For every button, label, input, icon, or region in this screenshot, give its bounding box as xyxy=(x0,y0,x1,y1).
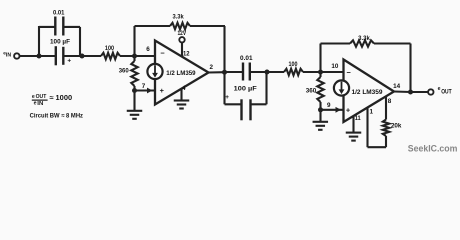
resistor R4 100 second stage input xyxy=(284,69,303,75)
wire: node I down to ground xyxy=(319,110,321,122)
resistor R7 20k xyxy=(383,120,389,137)
resistor R3 360 first stage shunt xyxy=(133,56,135,61)
resistor R2 3.3k first stage feedback xyxy=(170,23,190,29)
wire: node H to eOUT terminal xyxy=(411,91,429,93)
wire: node A up to 0.01 branch xyxy=(38,26,40,56)
wire: feedback 2 down to node H xyxy=(409,44,411,93)
svg-text:7: 7 xyxy=(142,83,146,90)
svg-text:20k: 20k xyxy=(391,122,402,129)
wire: feedback rail 2 right segment xyxy=(374,42,411,44)
resistor R1 100 xyxy=(101,53,120,59)
wire: node I to pin 9 of U2 (arrow) xyxy=(321,109,344,111)
wire: pin 12 stub supply to U1 xyxy=(181,42,183,57)
node E: + input node of U1 xyxy=(132,88,137,93)
svg-text:12: 12 xyxy=(183,50,190,57)
supply terminal 12V open circle xyxy=(179,37,184,42)
wire: U2 output to node H xyxy=(394,90,411,93)
wire: node E to pin 7 of U1 (arrow) xyxy=(135,89,156,91)
svg-text:−: − xyxy=(347,68,352,77)
wire: node C up to feedback rail xyxy=(133,26,135,56)
svg-text:360: 360 xyxy=(306,88,317,95)
svg-text:+: + xyxy=(346,105,351,114)
node A: input coupling left junction xyxy=(37,54,42,59)
node H: U2 output junction xyxy=(408,90,413,95)
resistor R6 360 second stage shunt xyxy=(319,72,321,77)
svg-text:14: 14 xyxy=(393,83,400,90)
wire: pin 8 stub from U2 to R7 xyxy=(385,96,387,119)
node G: second stage input junction xyxy=(318,70,323,75)
wire: node G up to feedback rail 2 xyxy=(319,44,321,73)
svg-text:100 µF: 100 µF xyxy=(50,39,70,46)
svg-text:IN: IN xyxy=(37,101,43,107)
capacitor C4 100uF electrolytic, lower branch xyxy=(240,99,242,120)
svg-text:6: 6 xyxy=(146,46,150,53)
svg-text:1: 1 xyxy=(369,109,373,116)
node D: U1 output junction xyxy=(222,70,227,75)
wire: lower branch right segment xyxy=(251,103,267,105)
wire: R3 to node E xyxy=(133,86,135,91)
wire: feedback rail left segment xyxy=(135,25,171,27)
wire: node F to R4 xyxy=(267,71,284,73)
wire: main line node A to C2 xyxy=(39,55,56,57)
svg-text:+: + xyxy=(160,86,165,95)
svg-text:12V: 12V xyxy=(178,30,187,37)
ground: first stage 360 return xyxy=(127,110,143,112)
svg-text:1/2 LM359: 1/2 LM359 xyxy=(166,70,195,77)
wire: node E down to ground xyxy=(133,91,135,111)
wire: feedback rail right segment xyxy=(190,25,225,27)
svg-text:0.01: 0.01 xyxy=(53,9,65,16)
svg-text:OUT: OUT xyxy=(36,94,47,100)
ground: second stage 360 return xyxy=(313,121,329,123)
wire: input lead from eIN terminal xyxy=(19,55,39,57)
svg-text:e: e xyxy=(438,86,441,92)
wire: R6 to node I xyxy=(319,102,321,110)
wire: R4 to pin 10 of U2 xyxy=(303,71,344,73)
svg-text:100: 100 xyxy=(289,61,298,68)
svg-text:100 µF: 100 µF xyxy=(234,86,257,93)
svg-text:0.01: 0.01 xyxy=(240,55,253,62)
svg-text:IN: IN xyxy=(6,53,11,59)
svg-text:+: + xyxy=(67,57,71,64)
svg-text:2: 2 xyxy=(210,64,214,71)
capacitor C3 0.01 interstage xyxy=(242,63,244,81)
wire: feedback rail 2 left segment xyxy=(321,42,351,44)
svg-text:−: − xyxy=(160,49,165,58)
svg-text:3.3k: 3.3k xyxy=(172,14,183,21)
svg-text:e: e xyxy=(32,94,35,100)
wire: node D down to electrolytic branch xyxy=(223,72,225,104)
wire: top branch left segment xyxy=(39,26,55,28)
svg-text:10: 10 xyxy=(331,63,338,70)
svg-text:11: 11 xyxy=(355,115,361,122)
svg-text:3.3k: 3.3k xyxy=(358,35,370,42)
svg-text:e: e xyxy=(34,101,37,107)
svg-text:8: 8 xyxy=(388,98,392,105)
op-amp U1 1/2 LM359 triangle xyxy=(155,41,209,105)
svg-text:1/2 LM359: 1/2 LM359 xyxy=(352,89,383,96)
wire: R1 to pin 6 of U1 xyxy=(120,55,155,57)
svg-text:SeekIC.com: SeekIC.com xyxy=(408,143,458,154)
wire: top branch right segment xyxy=(63,26,80,28)
svg-text:≈ 1000: ≈ 1000 xyxy=(49,93,72,102)
resistor R5 3.3k second stage feedback xyxy=(350,40,374,46)
wire: node D to C3 xyxy=(225,71,244,73)
current source symbol of U1 xyxy=(147,64,162,79)
wire: C2 to node B xyxy=(63,55,82,57)
svg-text:100: 100 xyxy=(105,45,114,52)
svg-text:+: + xyxy=(225,94,229,101)
terminal eIN (open circle) xyxy=(14,53,19,58)
svg-text:Circuit BW ≈ 8 MHz: Circuit BW ≈ 8 MHz xyxy=(30,113,84,120)
node I: + input node of U2 xyxy=(318,107,323,112)
terminal eOUT (open circle) xyxy=(428,89,433,94)
wire: feedback down to output node D xyxy=(223,26,225,72)
wire: C3 to node F xyxy=(250,71,267,73)
wire: 0.01 branch down to node B xyxy=(79,27,81,56)
svg-text:9: 9 xyxy=(327,102,331,109)
node C: first stage input junction xyxy=(132,54,137,59)
wire: pin 4 stub down from U1 xyxy=(180,89,182,101)
svg-text:4: 4 xyxy=(182,85,186,92)
ground: pin 4 of U1 xyxy=(174,99,190,101)
wire: pin 1 stub down, across, up to R7 bottom xyxy=(366,107,368,147)
op-amp U2 1/2 LM359 triangle xyxy=(344,60,395,123)
svg-text:OUT: OUT xyxy=(441,89,452,96)
capacitor C1 0.01, top branch xyxy=(54,17,56,36)
wire: pin 11 stub to ground xyxy=(352,116,354,133)
wire: lower branch left segment xyxy=(225,103,242,105)
capacitor C2 100uF electrolytic, main line xyxy=(55,46,57,65)
ground: pin 11 of U2 xyxy=(346,132,362,134)
wire: lower branch up to node F xyxy=(265,72,267,104)
current source symbol of U2 xyxy=(334,80,349,95)
svg-text:360: 360 xyxy=(119,68,129,75)
wire: node B to R1 xyxy=(82,55,101,57)
wire: U1 output to node D xyxy=(209,71,225,73)
node B: input coupling right junction xyxy=(80,54,85,59)
node F: interstage right junction xyxy=(265,70,270,75)
